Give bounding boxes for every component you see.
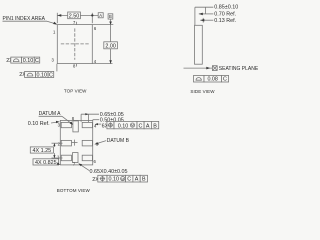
svg-text:0.85±0.10: 0.85±0.10 [214,5,238,11]
svg-text:A: A [99,13,102,18]
svg-text:6: 6 [94,26,97,31]
svg-text:TOP VIEW: TOP VIEW [64,89,87,94]
svg-text:0.10: 0.10 [109,177,120,183]
svg-text:0.10 Ref.: 0.10 Ref. [28,121,50,127]
svg-text:B: B [153,123,157,129]
svg-text:0.10: 0.10 [37,72,48,78]
svg-text:C: C [223,77,227,83]
svg-text:0.08: 0.08 [207,77,218,83]
svg-text:B: B [109,14,112,19]
svg-text:4X 1.25: 4X 1.25 [33,148,52,154]
svg-text:0.10: 0.10 [23,58,34,64]
svg-text:BOTTOM VIEW: BOTTOM VIEW [57,188,91,193]
svg-text:A: A [135,177,139,183]
svg-text:3: 3 [51,57,54,62]
svg-text:C: C [127,177,131,183]
svg-text:SIDE VIEW: SIDE VIEW [190,89,215,94]
svg-text:2.00: 2.00 [105,43,116,49]
svg-text:0.65X0.40±0.05: 0.65X0.40±0.05 [90,169,128,175]
svg-text:4: 4 [94,59,97,64]
svg-text:0.13 Ref.: 0.13 Ref. [214,18,236,24]
svg-text:6: 6 [94,159,97,164]
svg-text:C: C [35,58,39,64]
svg-text:DATUM B: DATUM B [107,138,130,144]
svg-text:A: A [146,123,150,129]
svg-text:B: B [142,177,146,183]
svg-text:M: M [131,124,134,128]
svg-text:0.70 Ref.: 0.70 Ref. [214,12,236,18]
svg-text:M: M [121,177,124,181]
svg-text:C: C [139,123,143,129]
svg-text:C: C [49,72,53,78]
svg-text:0.10: 0.10 [118,123,129,129]
svg-text:1: 1 [53,29,56,34]
svg-text:8: 8 [73,64,76,69]
svg-text:2.50: 2.50 [69,14,80,20]
svg-text:SEATING PLANE: SEATING PLANE [219,66,259,72]
svg-text:4X 0.825: 4X 0.825 [35,160,57,166]
